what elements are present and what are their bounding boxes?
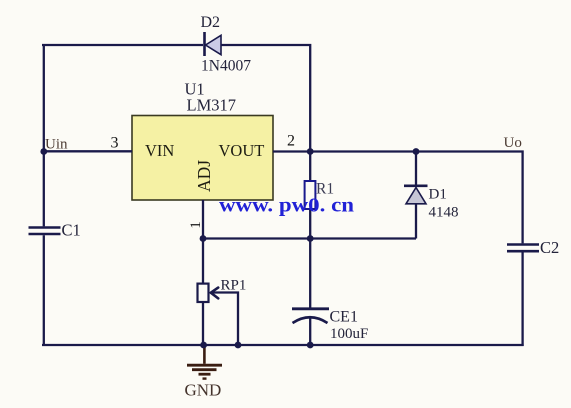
svg-text:1: 1 — [188, 221, 204, 229]
svg-text:4148: 4148 — [429, 205, 459, 221]
svg-text:D1: D1 — [429, 187, 447, 203]
svg-text:RP1: RP1 — [221, 278, 247, 294]
svg-text:GND: GND — [185, 381, 222, 400]
svg-text:D2: D2 — [201, 14, 221, 31]
svg-text:C2: C2 — [540, 238, 559, 257]
svg-text:3: 3 — [111, 135, 119, 152]
svg-text:ADJ: ADJ — [194, 160, 214, 192]
svg-text:VIN: VIN — [145, 141, 174, 160]
svg-text:1N4007: 1N4007 — [201, 58, 251, 75]
svg-text:Uo: Uo — [504, 135, 522, 151]
svg-text:100uF: 100uF — [330, 326, 368, 342]
svg-text:Uin: Uin — [45, 137, 68, 153]
svg-text:C1: C1 — [62, 221, 81, 240]
svg-text:2: 2 — [287, 133, 295, 150]
svg-text:VOUT: VOUT — [219, 141, 265, 160]
svg-text:CE1: CE1 — [330, 309, 358, 326]
svg-text:LM317: LM317 — [187, 96, 237, 115]
svg-text:www. pw0. cn: www. pw0. cn — [219, 195, 354, 217]
